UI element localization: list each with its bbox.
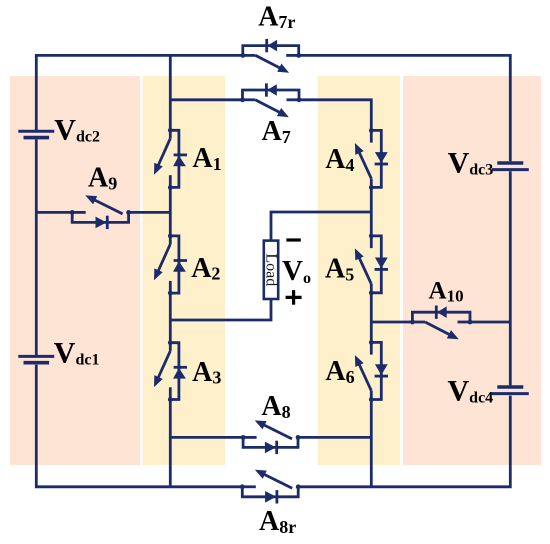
switch A8: left junction dot	[241, 435, 246, 440]
switch A1: diode loop	[170, 130, 179, 187]
switch A7: blade with arrow	[255, 100, 282, 114]
battery Vdc1: long (+) plate	[18, 355, 54, 358]
battery Vdc2: long (+) plate	[18, 130, 54, 133]
switch A4	[355, 128, 388, 190]
svg-text:Vo: Vo	[282, 255, 311, 287]
switch A5: diode loop	[371, 236, 381, 293]
switch A4: fixed contact stub	[370, 130, 373, 142]
switch A3: diode cathode bar	[174, 366, 187, 369]
wire: right rail middle (Vdc3 to Vdc4, A10 tap)	[509, 171, 512, 385]
switch A10 (bidirectional, right middle)	[410, 306, 472, 340]
wire: left leg segment A3 to bottom rail (A8 tap)	[169, 400, 172, 487]
switch A5: diode triangle	[375, 258, 388, 269]
switch A7: diode triangle	[267, 84, 277, 96]
switch A3: fixed contact stub	[169, 387, 172, 399]
switch A2	[154, 234, 187, 296]
switch A9: fixed contact stub	[72, 211, 86, 214]
highlight region: right source cell (pink)	[403, 76, 541, 465]
switch A2: diode loop	[170, 236, 179, 293]
switch A8r: diode loop	[242, 487, 298, 497]
switch A9: diode cathode bar	[106, 216, 109, 229]
switch A7: right junction dot	[297, 97, 302, 102]
switch A8: diode cathode bar	[275, 441, 278, 454]
switch A5: bottom junction dot	[369, 290, 374, 295]
switch A9: blade with arrow	[92, 199, 123, 214]
switch A9 (bidirectional, left middle)	[70, 195, 131, 229]
switch A7 (bidirectional, top inner)	[240, 83, 301, 117]
switch A4: top junction dot	[369, 128, 374, 133]
switch A1: fixed contact stub	[169, 175, 172, 187]
switch A1: blade with arrow	[157, 139, 170, 169]
switch A1	[154, 128, 187, 190]
switch A4: blade with arrow	[358, 149, 371, 178]
switch A10: diode cathode bar	[435, 306, 438, 319]
wire: right leg segment A4 to A5 (load top tap)	[370, 187, 373, 236]
wire: A7 branch right with corner to right leg top	[299, 100, 371, 131]
switch A6: diode triangle	[375, 364, 388, 375]
switch A8: diode triangle	[265, 442, 276, 454]
switch A8 (bidirectional, bottom inner)	[241, 420, 301, 454]
switch A7: blade pivot stub	[243, 98, 256, 101]
battery Vdc3: short (-) plate	[497, 161, 523, 165]
switch A7r: left junction dot	[240, 53, 245, 58]
switch A2: diode cathode bar	[174, 259, 187, 262]
battery Vdc4: short (-) plate	[497, 385, 523, 389]
highlight region: right leg strip (yellow)	[318, 76, 401, 465]
wire: top rail right segment with corner to right rail	[299, 55, 511, 161]
switch A3: diode loop	[170, 343, 179, 400]
switch A5	[355, 234, 388, 296]
switch A8r: diode triangle	[265, 491, 276, 503]
battery Vdc2: short (-) plate	[24, 136, 50, 140]
switch A2: blade pivot stub	[169, 236, 172, 244]
switch A9: diode triangle	[96, 217, 107, 229]
switch A6: diode cathode bar	[375, 375, 388, 378]
switch A2: diode triangle	[173, 261, 186, 272]
switch A7: left junction dot	[240, 97, 245, 102]
switch A1: bottom junction dot	[168, 185, 173, 190]
switch A1: top junction dot	[168, 128, 173, 133]
wire: load bottom to left leg	[170, 299, 271, 320]
switch A9: right junction dot	[126, 210, 131, 215]
svg-text:A8: A8	[261, 391, 290, 422]
switch A6: blade with arrow	[358, 361, 371, 390]
switch A6: top junction dot	[369, 340, 374, 345]
switch A6: fixed contact stub	[370, 342, 373, 354]
wire: right leg segment A5 to A6 (A10 tap)	[370, 293, 373, 343]
switch A4: diode cathode bar	[375, 163, 388, 166]
switch A2: top junction dot	[168, 234, 173, 239]
switch A7r: blade pivot stub	[243, 54, 256, 57]
switch A4: diode loop	[371, 130, 381, 187]
switch A10: diode loop	[412, 312, 470, 322]
switch A1: diode cathode bar	[174, 153, 187, 156]
switch A8r: left junction dot	[240, 484, 245, 489]
svg-text:A7r: A7r	[258, 1, 295, 32]
switch A1: diode triangle	[173, 156, 186, 167]
switch A7r: diode triangle	[268, 40, 278, 52]
switch A2: blade with arrow	[157, 244, 170, 274]
switch A7r (bidirectional, top outer)	[240, 39, 301, 73]
switch A7r: blade with arrow	[256, 55, 283, 69]
switch A10: diode triangle	[437, 306, 447, 318]
switch A4: bottom junction dot	[369, 185, 374, 190]
switch A9: left junction dot	[70, 210, 75, 215]
highlight region: left leg strip (yellow)	[143, 76, 226, 465]
switch A8r: fixed contact stub	[242, 485, 256, 488]
switch A4: blade pivot stub	[370, 179, 373, 188]
wire: right leg segment A6 to bottom rail (A8 tap)	[370, 400, 373, 487]
switch A5: diode cathode bar	[375, 268, 388, 271]
switch A3: diode triangle	[173, 368, 186, 379]
wire: A7 branch from left leg	[170, 98, 242, 101]
switch A8r (bidirectional, bottom outer)	[240, 470, 301, 504]
wire: left rail upper (top rail to Vdc2)	[35, 54, 38, 130]
switch A3: blade pivot stub	[169, 343, 172, 351]
switch A3: top junction dot	[168, 340, 173, 345]
switch A1: blade pivot stub	[169, 130, 172, 138]
wire: A9 branch from left rail	[36, 211, 72, 214]
wire: left rail lower with corner to bottom rail left	[36, 365, 242, 487]
switch A5: blade pivot stub	[370, 284, 373, 293]
switch A7r: right junction dot	[296, 53, 301, 58]
wire: A10 branch from right leg	[371, 321, 412, 324]
load resistor box	[264, 241, 278, 299]
svg-text:A8r: A8r	[259, 506, 296, 537]
switch A5: blade with arrow	[358, 255, 371, 284]
switch A10: right junction dot	[468, 320, 473, 325]
switch A6: blade pivot stub	[370, 391, 373, 400]
highlight region: left source cell (pink)	[10, 76, 140, 465]
label plus polarity mark	[286, 296, 302, 299]
switch A10: blade with arrow	[425, 322, 452, 336]
battery Vdc3: long (+) plate	[492, 168, 529, 171]
switch A8r: right junction dot	[296, 484, 301, 489]
switch A2: bottom junction dot	[168, 291, 173, 296]
wire: top rail left segment	[36, 54, 243, 57]
switch A8: diode loop	[243, 437, 298, 447]
switch A10: left junction dot	[410, 320, 415, 325]
wire: A10 branch to right rail	[470, 321, 510, 324]
switch A6: diode loop	[371, 342, 381, 399]
wire: left leg segment A2 to A3 (load tap)	[169, 293, 172, 343]
switch A5: fixed contact stub	[370, 236, 373, 248]
label minus polarity mark	[286, 238, 300, 241]
wire: load top to right leg	[271, 212, 371, 241]
wire: left leg segment top rail to A1 (A7 tap)	[169, 55, 172, 130]
switch A7r: diode loop	[243, 46, 299, 56]
switch A2: fixed contact stub	[169, 281, 172, 293]
switch A3	[154, 340, 187, 402]
switch A3: bottom junction dot	[168, 397, 173, 402]
switch A7: diode loop	[243, 90, 300, 100]
svg-text:Load: Load	[263, 253, 280, 286]
switch A8r: diode cathode bar	[275, 490, 278, 503]
battery Vdc4: long (+) plate	[492, 392, 529, 395]
switch A10: fixed contact stub	[458, 321, 471, 324]
wire: bottom rail right segment with corner to right rail	[298, 396, 510, 487]
switch A6: bottom junction dot	[369, 397, 374, 402]
switch A8: right junction dot	[296, 435, 301, 440]
switch A6	[355, 340, 388, 402]
svg-text:A7: A7	[262, 116, 291, 147]
switch A8: blade with arrow	[261, 424, 292, 439]
switch A3: blade with arrow	[157, 351, 170, 381]
wire: A8 branch from left leg	[170, 436, 243, 439]
switch A4: diode triangle	[375, 152, 388, 163]
switch A7: fixed contact stub	[287, 98, 300, 101]
wire: A9 branch to left leg	[129, 211, 171, 214]
switch A8r: blade with arrow	[261, 473, 292, 488]
switch A10: blade pivot stub	[412, 321, 425, 324]
switch A7: diode cathode bar	[265, 83, 268, 96]
switch A9: diode loop	[72, 212, 128, 222]
switch A5: top junction dot	[369, 234, 374, 239]
switch A7r: diode cathode bar	[265, 39, 268, 52]
switch A8: fixed contact stub	[243, 436, 257, 439]
wire: A8 branch to right leg	[298, 436, 371, 439]
battery Vdc1: short (-) plate	[24, 361, 50, 365]
switch A7r: fixed contact stub	[286, 54, 299, 57]
wire: left leg segment A1 to A2 (A9 tap)	[169, 187, 172, 236]
wire: left rail middle (Vdc2 to Vdc1, A9 tap)	[35, 139, 38, 355]
